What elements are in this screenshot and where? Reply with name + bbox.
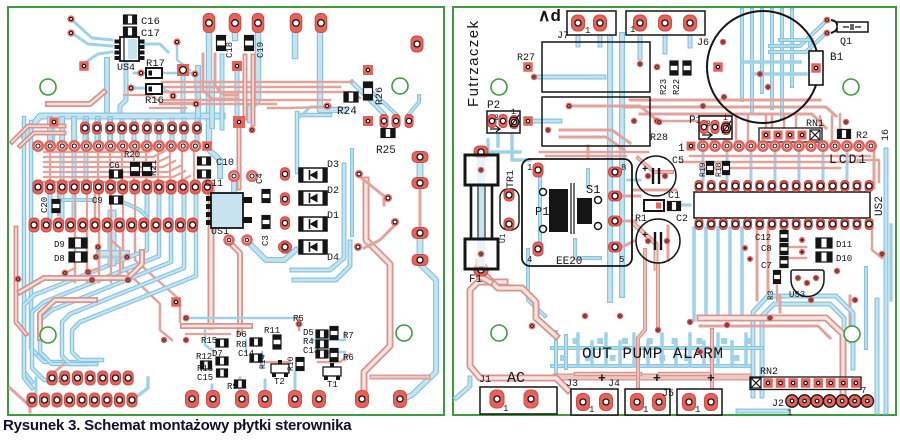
- svg-text:C16: C16: [141, 16, 160, 28]
- wire: [716, 334, 720, 366]
- svg-text:3: 3: [706, 120, 711, 129]
- relay REL2: [542, 97, 650, 146]
- svg-text:1: 1: [695, 405, 700, 415]
- svg-text:J6: J6: [697, 38, 709, 49]
- capacitor C3 pad: [279, 243, 292, 252]
- wire: [622, 195, 640, 198]
- wire: [123, 202, 146, 216]
- wire: [779, 296, 782, 312]
- wire: [552, 346, 762, 350]
- wire: [231, 180, 237, 192]
- wire: [488, 140, 520, 152]
- svg-text:1: 1: [527, 163, 532, 173]
- relay REL1: [542, 42, 650, 92]
- wire: [604, 334, 608, 366]
- pads misc right: [582, 313, 588, 319]
- wire: [364, 180, 390, 393]
- svg-text:J1: J1: [479, 375, 491, 386]
- wire: [470, 282, 568, 390]
- wire: [756, 228, 759, 300]
- connector J6: [626, 11, 705, 35]
- capacitor C11: [198, 170, 211, 178]
- pads US2 top row: [695, 181, 703, 192]
- wire: [298, 318, 301, 330]
- wire: [132, 378, 148, 400]
- wire: [195, 120, 200, 146]
- svg-text:1: 1: [503, 404, 508, 414]
- wire: [135, 230, 180, 322]
- wire: [586, 170, 590, 186]
- pad bottom row big: [186, 391, 199, 408]
- wire: [24, 232, 147, 388]
- wire: [638, 158, 672, 172]
- wire: [776, 286, 779, 300]
- transformer core line: [571, 183, 574, 234]
- svg-text:R22: R22: [672, 79, 682, 95]
- wire: [590, 342, 594, 366]
- wire: [235, 70, 240, 116]
- svg-text:1: 1: [678, 143, 685, 155]
- svg-text:J4: J4: [608, 379, 620, 390]
- wire: [330, 352, 345, 360]
- mounting hole: [40, 79, 56, 95]
- wire: [40, 232, 171, 364]
- wire: [72, 20, 112, 40]
- svg-text:R24: R24: [337, 106, 357, 118]
- wire: [628, 179, 640, 182]
- wire: [74, 232, 77, 282]
- wire: [143, 44, 168, 52]
- wire: [24, 116, 222, 136]
- wire: [688, 30, 693, 46]
- svg-text:D4: D4: [327, 253, 339, 264]
- wire: [215, 54, 238, 95]
- wire: [203, 54, 238, 99]
- capacitor C10: [198, 157, 211, 165]
- crystal Q1: [837, 22, 868, 32]
- wire: [24, 118, 32, 382]
- wire: [10, 388, 30, 412]
- wire: [700, 167, 840, 170]
- wire: [702, 342, 706, 366]
- square pad mid: [233, 116, 245, 128]
- caption: [3, 417, 351, 434]
- wire: [245, 340, 248, 352]
- wire: [65, 268, 75, 273]
- wire: [699, 116, 702, 142]
- wire: [186, 318, 299, 326]
- svg-text:C18: C18: [225, 42, 235, 58]
- svg-text:D3: D3: [327, 160, 339, 171]
- svg-text:J5: J5: [662, 389, 674, 400]
- pads near US4: [67, 15, 74, 22]
- wire: [688, 334, 692, 366]
- wire: [350, 150, 354, 235]
- wire: [243, 56, 248, 118]
- wire: [268, 107, 330, 108]
- wire: [74, 191, 76, 222]
- wire: [205, 330, 215, 352]
- wire: [195, 78, 196, 100]
- wire: [359, 176, 384, 205]
- wire: [182, 120, 187, 146]
- wire: [57, 190, 60, 215]
- wire: [554, 332, 558, 372]
- right PCB panel outline: [453, 7, 896, 415]
- voltage regulator US1: [211, 193, 243, 228]
- wire: [634, 189, 676, 192]
- mounting hole: [40, 327, 56, 343]
- svg-text:R6: R6: [343, 353, 354, 363]
- square pad below rows: [171, 297, 181, 307]
- wire: [60, 150, 65, 184]
- wire: [624, 107, 836, 116]
- wire: [162, 81, 352, 83]
- wire: [479, 262, 490, 282]
- capacitor C2: [636, 219, 680, 263]
- wire: [38, 356, 75, 362]
- wire: [740, 10, 744, 100]
- svg-text:D1: D1: [327, 211, 339, 222]
- pads right column mid: [412, 152, 428, 163]
- wire: [162, 88, 173, 94]
- mounting hole: [843, 79, 859, 95]
- wire: [564, 336, 568, 368]
- svg-text:EE20: EE20: [556, 256, 582, 268]
- transformer secondary S1 winding: [577, 198, 592, 224]
- pad: [411, 36, 423, 52]
- wire: [738, 409, 788, 414]
- wire: [220, 56, 225, 128]
- wire: [211, 385, 214, 396]
- svg-text:C3: C3: [261, 235, 271, 246]
- svg-text:1: 1: [589, 405, 594, 415]
- pad bottom-left row A: [47, 371, 57, 385]
- wire: [598, 30, 603, 45]
- wire: [742, 60, 800, 64]
- battery B1: [707, 11, 819, 123]
- pads cluster: [296, 321, 303, 328]
- wire: [320, 22, 344, 110]
- wire: [496, 134, 500, 146]
- wire: [177, 46, 190, 70]
- wire: [94, 195, 97, 230]
- wire: [634, 224, 656, 268]
- wire: [456, 378, 470, 398]
- wire: [295, 113, 300, 172]
- svg-text:J2: J2: [772, 399, 784, 410]
- mounting hole: [491, 79, 507, 95]
- svg-text:AC: AC: [507, 370, 525, 387]
- wire: [560, 130, 630, 143]
- wire: [576, 30, 581, 45]
- resistor R6: [330, 349, 338, 362]
- resistor R3: [774, 271, 781, 284]
- square pad: [79, 61, 89, 71]
- svg-text:1: 1: [643, 405, 648, 415]
- resistor R22: [683, 61, 691, 75]
- svg-text:+: +: [707, 371, 715, 386]
- wire: [232, 22, 239, 38]
- svg-text:P1: P1: [535, 205, 549, 219]
- pad row 1: [33, 141, 42, 150]
- wire: [849, 296, 852, 342]
- wire: [630, 99, 820, 102]
- wire: [134, 87, 146, 90]
- mounting hole: [844, 326, 860, 342]
- svg-text:D10: D10: [836, 254, 852, 264]
- wire: [710, 330, 714, 388]
- svg-text:TR1: TR1: [506, 170, 517, 188]
- wire: [667, 226, 670, 260]
- pads US2 bottom row: [695, 219, 703, 230]
- svg-text:1: 1: [511, 108, 516, 117]
- svg-text:C5: C5: [672, 156, 684, 167]
- wire: [83, 121, 88, 146]
- resistor R7: [330, 327, 338, 340]
- pad relay left 2: [523, 116, 533, 126]
- resistor R2: [838, 130, 851, 139]
- pad R24 left: [323, 102, 330, 109]
- pad bottom-left row B: [27, 393, 37, 407]
- wire: [512, 134, 530, 160]
- mounting hole: [396, 325, 412, 341]
- wire: [183, 323, 250, 329]
- svg-text:Futrzaczek: Futrzaczek: [465, 20, 482, 107]
- transistor T2: [271, 364, 289, 373]
- svg-text:D9: D9: [54, 240, 65, 250]
- wire: [534, 119, 560, 124]
- capacitor C18: [217, 36, 226, 51]
- wire: [292, 22, 299, 56]
- wire: [251, 56, 256, 124]
- square pad: [177, 64, 189, 76]
- pad relay mid: [566, 103, 573, 110]
- pad row 2: [33, 180, 43, 194]
- wire: [250, 22, 258, 120]
- wire: [889, 225, 893, 300]
- diode D4: [299, 240, 327, 254]
- pad row 0: [81, 122, 90, 134]
- svg-text:C8: C8: [761, 244, 772, 254]
- pads below D8: [62, 270, 69, 277]
- wire: [640, 114, 826, 128]
- wire: [111, 240, 128, 280]
- wire: [300, 107, 330, 117]
- svg-text:∧d: ∧d: [538, 6, 561, 25]
- wire: [207, 148, 220, 176]
- square pad: [50, 118, 59, 127]
- wire: [372, 92, 396, 114]
- wire: [790, 257, 806, 260]
- wire: [100, 256, 125, 259]
- svg-text:R16: R16: [145, 95, 164, 107]
- svg-text:C20: C20: [40, 197, 50, 213]
- svg-text:5: 5: [619, 255, 624, 265]
- wire: [312, 332, 345, 340]
- wire: [730, 342, 734, 366]
- wire: [534, 75, 604, 80]
- svg-text:R28: R28: [650, 133, 668, 144]
- wire: [660, 372, 712, 377]
- wire: [690, 155, 870, 158]
- wire: [660, 334, 664, 366]
- pad relay right: [654, 64, 661, 71]
- wire: [47, 119, 53, 146]
- svg-text:C11: C11: [205, 179, 223, 190]
- wire: [35, 378, 38, 400]
- wire: [765, 114, 768, 128]
- wire: [622, 220, 636, 223]
- transistor US3: [791, 270, 824, 297]
- svg-text:1: 1: [630, 25, 635, 35]
- wire: [294, 372, 297, 396]
- square pad: [232, 61, 242, 71]
- wire: [744, 334, 748, 366]
- wire: [318, 354, 350, 362]
- svg-text:R7: R7: [343, 331, 354, 341]
- pad row 3: [29, 218, 39, 232]
- op-amp U4 (US4 SO-8): [120, 37, 139, 61]
- resistor R24: [344, 92, 358, 102]
- wire: [556, 374, 748, 381]
- wire: [538, 176, 542, 246]
- wire: [700, 326, 830, 338]
- pad row top: [203, 14, 215, 33]
- capacitor C5: [636, 156, 676, 196]
- wire: [575, 240, 600, 258]
- wire: [372, 375, 428, 380]
- pads diodes left: [281, 168, 290, 180]
- pads R16 R17: [137, 69, 144, 76]
- pad above R26: [363, 65, 373, 75]
- pads battery: [713, 62, 723, 72]
- svg-text:US2: US2: [874, 196, 886, 216]
- wire: [660, 120, 700, 123]
- transformer pads: [533, 163, 543, 177]
- wire: [607, 35, 613, 300]
- svg-text:P2: P2: [487, 100, 500, 112]
- diode D10: [816, 252, 832, 262]
- diode D2: [299, 191, 327, 205]
- wire: [237, 128, 242, 188]
- svg-text:C10: C10: [216, 158, 234, 169]
- varistor U1: [500, 189, 519, 230]
- wire: [108, 214, 117, 262]
- wire: [632, 334, 636, 366]
- wire: [702, 150, 705, 182]
- svg-text:4: 4: [527, 255, 532, 265]
- wire: [195, 68, 201, 122]
- wire: [31, 122, 38, 356]
- wire: [875, 300, 880, 412]
- wire: [206, 22, 213, 146]
- wire: [663, 30, 668, 52]
- wire: [572, 106, 658, 121]
- transistor T1: [323, 367, 341, 376]
- wire: [264, 380, 267, 396]
- wire: [840, 114, 846, 134]
- wire: [164, 99, 330, 101]
- svg-text:+: +: [653, 371, 661, 386]
- diode D1: [299, 217, 327, 231]
- wire: [164, 92, 360, 98]
- wire: [88, 247, 99, 272]
- wire: [560, 355, 566, 361]
- connector J7: [567, 11, 616, 35]
- svg-text:F1: F1: [469, 274, 483, 286]
- wire: [48, 92, 104, 104]
- svg-text:US1: US1: [211, 227, 229, 238]
- wire: [209, 85, 215, 126]
- wire: [619, 35, 625, 295]
- wire: [124, 95, 196, 103]
- wire: [52, 364, 64, 382]
- wire: [44, 146, 160, 152]
- wire: [858, 160, 879, 182]
- wire: [239, 378, 242, 396]
- svg-text:R23: R23: [659, 79, 669, 95]
- svg-text:T1: T1: [327, 380, 338, 390]
- wire: [638, 30, 643, 58]
- svg-text:C9: C9: [92, 196, 103, 206]
- square pad row1 end: [202, 141, 212, 151]
- wire: [20, 252, 142, 292]
- wire: [250, 361, 290, 363]
- wire: [674, 342, 678, 366]
- wire: [576, 334, 580, 366]
- svg-text:LCD1: LCD1: [829, 152, 868, 167]
- wire: [150, 107, 186, 109]
- svg-text:D2: D2: [327, 186, 339, 197]
- wire: [540, 151, 648, 154]
- pad R28 area: [545, 127, 551, 133]
- wire: [638, 250, 645, 390]
- wire: [249, 243, 296, 260]
- svg-text:C4: C4: [255, 173, 265, 184]
- wire: [292, 165, 344, 270]
- svg-text:US3: US3: [789, 290, 805, 300]
- wire: [780, 38, 812, 42]
- svg-text:R20: R20: [124, 150, 140, 160]
- wire: [72, 33, 112, 46]
- wire: [484, 274, 556, 336]
- wire: [560, 137, 624, 150]
- wire: [86, 52, 112, 62]
- wire: [162, 86, 340, 88]
- wire: [40, 300, 95, 338]
- svg-text:T2: T2: [274, 377, 285, 387]
- wire: [790, 246, 806, 249]
- wire: [873, 150, 876, 188]
- wire: [62, 232, 184, 364]
- wire: [100, 250, 126, 258]
- wire: [48, 191, 53, 222]
- resistor R1: [644, 200, 664, 211]
- svg-text:16: 16: [881, 129, 892, 141]
- pads near C12: [799, 237, 805, 243]
- svg-text:J7: J7: [557, 31, 569, 42]
- wire: [186, 333, 230, 335]
- wire: [752, 72, 806, 76]
- capacitor C17: [124, 27, 137, 36]
- svg-text:C1: C1: [668, 191, 680, 202]
- svg-text:C2: C2: [676, 214, 688, 225]
- pad: [249, 127, 256, 134]
- wire: [16, 228, 26, 334]
- svg-text:R14: R14: [259, 354, 268, 369]
- svg-text:R26: R26: [375, 87, 386, 105]
